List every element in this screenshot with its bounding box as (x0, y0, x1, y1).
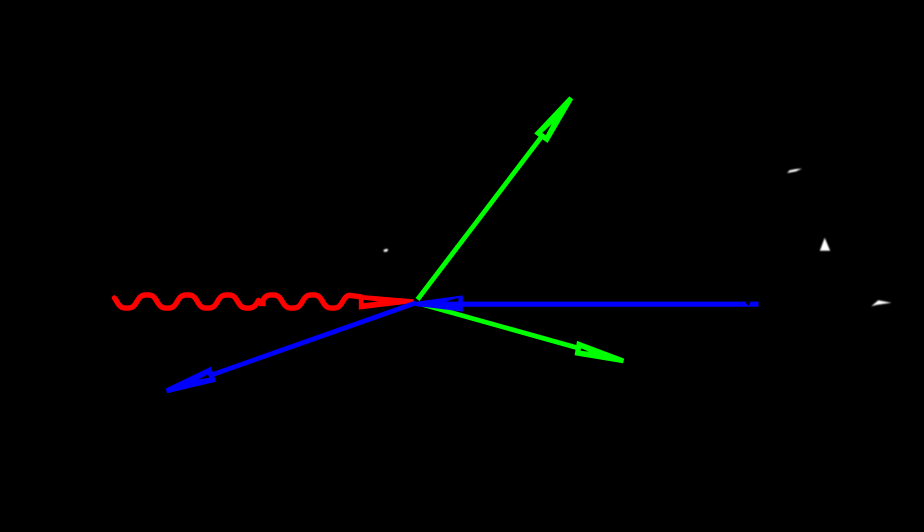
electron recoil line (green, down-right) (419, 304, 618, 360)
incident photon wavy line (115, 295, 259, 308)
blue down-left arrowhead (166, 367, 217, 393)
blue left-pointing arrowhead (415, 295, 463, 311)
blue horizontal line from right (417, 302, 759, 307)
white triangle (counter of letter A) (820, 238, 830, 251)
wave seam block (259, 300, 266, 307)
black notch over blue line (746, 302, 751, 306)
white arrowhead sliver upper right (787, 169, 802, 173)
photon arrowhead (red, open) (359, 295, 414, 310)
blue line down-left (172, 303, 416, 389)
green up-right arrowhead (534, 96, 573, 143)
tiny white blob near center (383, 248, 388, 252)
scattered photon line (green, up-right) (418, 105, 567, 300)
green down-right arrowhead (575, 341, 625, 363)
wavy line right segment (262, 295, 362, 308)
white arrowhead sliver right (871, 300, 891, 306)
